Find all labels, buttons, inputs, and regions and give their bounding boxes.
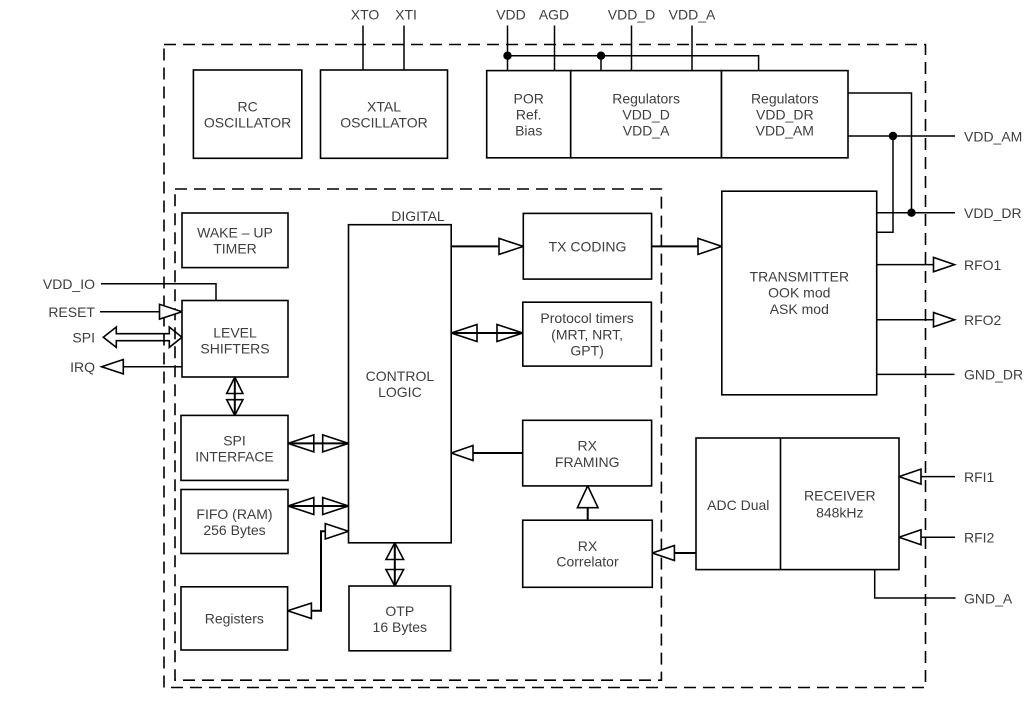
svg-text:WAKE – UP: WAKE – UP [197, 225, 273, 241]
svg-text:Protocol timers: Protocol timers [540, 310, 633, 326]
svg-text:FRAMING: FRAMING [555, 454, 620, 470]
svg-text:TX CODING: TX CODING [549, 239, 627, 255]
svg-text:RESET: RESET [48, 304, 95, 320]
svg-text:VDD_D: VDD_D [608, 7, 655, 23]
svg-text:VDD_DR: VDD_DR [756, 107, 814, 123]
svg-text:OSCILLATOR: OSCILLATOR [340, 115, 427, 131]
svg-text:16 Bytes: 16 Bytes [373, 619, 427, 635]
svg-text:TIMER: TIMER [213, 241, 257, 257]
svg-text:RX: RX [577, 438, 597, 454]
svg-text:POR: POR [514, 91, 544, 107]
svg-text:OTP: OTP [385, 603, 414, 619]
svg-text:XTO: XTO [351, 7, 380, 23]
svg-text:VDD_AM: VDD_AM [964, 128, 1022, 144]
svg-text:AGD: AGD [539, 7, 569, 23]
svg-text:XTAL: XTAL [367, 99, 401, 115]
svg-text:ASK mod: ASK mod [770, 301, 829, 317]
svg-text:Registers: Registers [205, 611, 264, 627]
svg-text:RFO2: RFO2 [964, 312, 1002, 328]
svg-text:SHIFTERS: SHIFTERS [200, 341, 269, 357]
svg-text:RFO1: RFO1 [964, 257, 1002, 273]
svg-text:VDD: VDD [496, 7, 526, 23]
svg-text:RECEIVER: RECEIVER [804, 488, 876, 504]
svg-text:GPT): GPT) [570, 343, 603, 359]
svg-text:OSCILLATOR: OSCILLATOR [204, 115, 291, 131]
svg-text:ADC Dual: ADC Dual [707, 497, 769, 513]
svg-text:Correlator: Correlator [556, 554, 619, 570]
svg-text:848kHz: 848kHz [816, 505, 863, 521]
svg-text:CONTROL: CONTROL [366, 368, 435, 384]
svg-text:(MRT, NRT,: (MRT, NRT, [551, 326, 623, 342]
svg-text:LEVEL: LEVEL [213, 325, 257, 341]
svg-text:Bias: Bias [515, 123, 542, 139]
svg-text:Ref.: Ref. [516, 107, 542, 123]
svg-text:FIFO (RAM): FIFO (RAM) [196, 506, 272, 522]
svg-text:GND_DR: GND_DR [964, 367, 1023, 383]
svg-text:RFI1: RFI1 [964, 469, 995, 485]
svg-text:RFI2: RFI2 [964, 530, 995, 546]
svg-text:RC: RC [237, 99, 257, 115]
svg-text:VDD_DR: VDD_DR [964, 205, 1022, 221]
svg-text:GND_A: GND_A [964, 590, 1013, 606]
svg-text:VDD_A: VDD_A [669, 7, 716, 23]
svg-text:VDD_IO: VDD_IO [43, 276, 95, 292]
svg-text:Regulators: Regulators [751, 91, 819, 107]
svg-text:LOGIC: LOGIC [378, 384, 422, 400]
svg-text:VDD_D: VDD_D [622, 107, 669, 123]
svg-text:RX: RX [578, 538, 598, 554]
svg-text:XTI: XTI [395, 7, 417, 23]
svg-text:SPI: SPI [223, 432, 246, 448]
svg-text:256 Bytes: 256 Bytes [203, 522, 265, 538]
svg-text:OOK mod: OOK mod [768, 285, 830, 301]
svg-text:IRQ: IRQ [70, 359, 95, 375]
svg-text:SPI: SPI [72, 330, 95, 346]
svg-text:INTERFACE: INTERFACE [195, 448, 274, 464]
svg-text:DIGITAL: DIGITAL [391, 208, 445, 224]
svg-text:TRANSMITTER: TRANSMITTER [750, 268, 850, 284]
svg-text:Regulators: Regulators [612, 91, 680, 107]
svg-text:VDD_A: VDD_A [623, 123, 670, 139]
svg-text:VDD_AM: VDD_AM [756, 123, 814, 139]
